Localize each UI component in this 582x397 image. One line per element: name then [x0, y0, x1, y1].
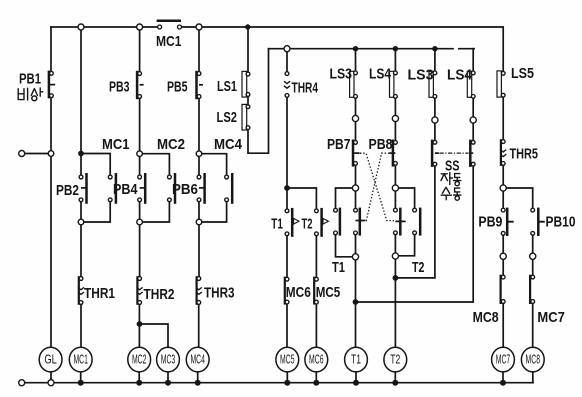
timer contact T2 (NO delayed)	[315, 208, 329, 237]
wire node to THR3	[198, 225, 200, 277]
wire LS3b to node	[434, 98, 436, 117]
wire inner contact from node	[355, 191, 357, 208]
node open on bottom rail at GL column	[48, 380, 54, 386]
thermal relay THR3	[196, 276, 202, 305]
svg-text:MC2: MC2	[157, 136, 185, 153]
node open rejoin PB6/MC4	[196, 219, 202, 225]
svg-text:LS3: LS3	[330, 66, 353, 83]
lamp GL	[39, 347, 62, 372]
contact T2 (NO) below PB8	[413, 208, 421, 236]
node open split PB4/MC2	[137, 151, 143, 157]
svg-text:THR3: THR3	[204, 285, 235, 302]
svg-text:PB1: PB1	[19, 71, 41, 88]
wire column PB3 from top rail	[139, 27, 141, 72]
coil MC3	[157, 347, 180, 372]
wire LS3 drop from second rail	[355, 49, 357, 71]
node junction dot bottom rail MC4	[195, 380, 201, 386]
node open rejoin PB2/MC1	[78, 219, 84, 225]
wire branch node to PB10	[503, 188, 533, 208]
svg-text:PB7: PB7	[327, 136, 351, 153]
limit switch LS4	[390, 71, 398, 98]
node open below THR5	[500, 185, 506, 191]
svg-text:MC3: MC3	[161, 352, 176, 366]
wire GL lamp to bottom rail	[50, 372, 52, 380]
wire T1 coil to bottom rail	[355, 372, 357, 383]
wire branch PB2 to MC1 aux	[81, 154, 110, 176]
node junction dot bottom rail MC3	[165, 380, 171, 386]
svg-text:PB10: PB10	[546, 214, 576, 231]
node open on second rail at THR4	[284, 46, 290, 52]
svg-text:THR4: THR4	[292, 80, 319, 97]
wire top rail right segment	[182, 27, 504, 71]
wire LS4b to node	[472, 98, 474, 117]
wire column PB5 from top rail	[198, 27, 200, 72]
wire rejoin node down to T2 coil	[394, 259, 396, 347]
label hangul BI-SANG (emergency) under PB1	[18, 88, 27, 100]
wire branch junction to T2 timer contact	[287, 188, 316, 208]
pushbutton PB4 (NO)	[138, 173, 145, 204]
wire T2 contact bottom to rejoin	[398, 235, 414, 256]
wire LS4b drop from second rail corner	[472, 49, 475, 72]
svg-text:T1: T1	[332, 259, 345, 276]
node open below LS3	[352, 115, 358, 121]
coil MC4	[186, 347, 209, 372]
wire MC1 aux below to node	[84, 202, 110, 222]
node open below PB9	[500, 253, 506, 259]
wire inner contact from node	[394, 191, 396, 208]
svg-text:MC8: MC8	[473, 309, 499, 326]
contact MC5 (NC interlock)	[314, 277, 318, 305]
thermal relay THR1	[78, 276, 84, 305]
wire second rail right short segment	[459, 48, 474, 50]
svg-text:MC8: MC8	[526, 352, 541, 366]
wire T1 timer contact to MC6 contact	[286, 236, 288, 277]
svg-text:MC1: MC1	[156, 33, 182, 50]
contact MC1 on top rail (NO)	[157, 21, 182, 29]
wire branch to T1 contact	[336, 188, 356, 208]
wire LS3b drop from second rail	[434, 49, 436, 72]
node junction dot second rail LS4	[393, 46, 398, 51]
selector switch SS left contact	[432, 140, 439, 167]
svg-text:LS4: LS4	[447, 66, 473, 83]
wire MC8 coil to bottom rail	[532, 372, 534, 383]
wire PB4 below to node	[139, 202, 141, 220]
svg-text:T2: T2	[412, 259, 425, 276]
node open on top rail at PB2 column	[78, 24, 84, 30]
svg-text:PB5: PB5	[167, 79, 188, 96]
limit switch LS2	[242, 104, 250, 130]
dotted mechanical link PB8 to left contact	[362, 153, 390, 220]
svg-text:PB4: PB4	[113, 181, 138, 198]
svg-text:PB6: PB6	[172, 181, 198, 198]
wire node to PB8	[394, 122, 396, 141]
limit switch LS4 second	[467, 71, 475, 98]
wire PB8 to lower node	[394, 166, 396, 185]
pushbutton PB3 (NC)	[137, 71, 144, 99]
node open on top rail at PB3 column	[137, 24, 143, 30]
node junction dot T2 column y278	[393, 275, 399, 281]
wire LS5 to THR5	[502, 97, 504, 139]
svg-text:THR5: THR5	[510, 146, 539, 163]
svg-text:MC1: MC1	[73, 352, 88, 366]
limit switch LS3 second	[429, 71, 437, 98]
wire PB10 to mid node	[532, 235, 534, 253]
node junction dot PB2 split	[78, 151, 84, 157]
svg-text:GL: GL	[44, 352, 57, 366]
wire MC6 contact to MC5 coil	[286, 304, 288, 347]
svg-text:PB3: PB3	[109, 79, 130, 96]
wire PB3 to split node	[139, 99, 141, 176]
svg-text:MC5: MC5	[280, 352, 295, 366]
wire mid node to MC7 contact	[532, 259, 534, 275]
coil MC5	[276, 347, 299, 372]
node open below LS3b	[432, 117, 438, 123]
label hangul SU-DONG (manual) under SS	[441, 187, 451, 200]
node junction dot bottom rail MC7	[500, 380, 506, 386]
wire LS3 to node	[355, 98, 357, 115]
pushbutton PB9 (NO)	[501, 208, 513, 236]
node junction dot second rail LS3b	[432, 46, 437, 51]
contact MC6 (NC interlock)	[285, 277, 289, 305]
wire T1 contact bottom to rejoin	[336, 235, 353, 257]
contact MC4 aux (NO)	[225, 173, 232, 204]
node open below PB10	[530, 253, 536, 259]
wire T2 coil to bottom rail	[394, 372, 396, 383]
wire THR2 to MC2 coil	[138, 305, 140, 348]
svg-text:PB2: PB2	[56, 182, 79, 199]
svg-text:LS2: LS2	[217, 109, 238, 126]
node open below PB7	[352, 185, 358, 191]
dash-dot link between SS contacts	[440, 152, 469, 154]
contact MC7 (NC interlock)	[530, 275, 535, 304]
wire inner contact bottom to rejoin node	[355, 235, 357, 254]
wire MC7 contact to MC8 coil	[532, 304, 534, 348]
label hangul JA-DONG (auto) under SS	[441, 172, 452, 184]
node terminal circle bottom left	[19, 380, 25, 386]
wire branch to MC2 aux	[140, 154, 170, 175]
svg-text:LS1: LS1	[217, 78, 237, 95]
node open rejoin T2 pair	[392, 253, 398, 259]
svg-text:LS5: LS5	[511, 65, 534, 82]
wire MC5 coil to bottom rail	[286, 372, 288, 383]
contact linked (NO) inner below PB7	[354, 208, 366, 236]
wire rejoin node down to T1 coil	[355, 260, 357, 347]
coil T2	[384, 347, 407, 372]
limit switch LS3	[350, 71, 358, 98]
pushbutton PB1 (NC, emergency)	[49, 71, 55, 99]
wire LS4 drop from second rail	[394, 49, 396, 71]
node open on top rail at PB5 column	[196, 24, 202, 30]
contact MC2 aux (NO)	[168, 173, 176, 204]
pushbutton PB8 (NC, linked)	[389, 140, 397, 167]
svg-text:T1: T1	[271, 216, 283, 233]
wire THR5 to node	[502, 165, 504, 185]
node open below PB8	[392, 185, 398, 191]
svg-text:LS3: LS3	[408, 66, 434, 83]
contact T1 (NO) below PB7	[334, 208, 340, 236]
node open on left rail at stub	[48, 151, 54, 157]
node open below LS4b	[470, 117, 476, 123]
svg-text:T2: T2	[390, 352, 400, 366]
svg-text:SS: SS	[445, 158, 460, 175]
svg-text:THR2: THR2	[144, 286, 175, 303]
thermal relay THR4	[284, 72, 290, 98]
wire LS1 to LS2	[247, 97, 249, 105]
svg-text:MC5: MC5	[316, 284, 341, 301]
svg-text:MC4: MC4	[214, 136, 243, 153]
wire node to PB7	[355, 122, 357, 141]
wire MC1 coil to bottom rail	[80, 372, 82, 383]
wire MC4 aux below to node	[202, 202, 227, 222]
wire second rail left riser from LS2	[248, 49, 269, 154]
wire THR3 to MC4 coil	[198, 305, 200, 348]
node junction dot top rail at LS1	[245, 24, 250, 29]
svg-text:MC6: MC6	[286, 284, 311, 301]
node junction dot second rail LS3	[353, 46, 358, 51]
wire node to THR2	[139, 225, 141, 277]
timer contact T1 (NO delayed)	[285, 208, 299, 237]
svg-text:MC2: MC2	[132, 352, 147, 366]
wire branch to T2 contact	[395, 188, 414, 208]
wire PB2 below to node	[80, 202, 82, 220]
node junction dot THR2 to MC3 branch	[137, 321, 143, 327]
wire inner contact bottom to rejoin node	[394, 235, 396, 253]
svg-text:PB9: PB9	[478, 214, 502, 231]
node open split PB6/MC4	[196, 151, 202, 157]
svg-text:THR1: THR1	[84, 285, 115, 302]
dotted mechanical link PB7 to right contact	[360, 153, 394, 220]
wire MC4 coil to bottom rail	[197, 372, 199, 383]
contact MC1 aux (NO)	[108, 173, 116, 204]
svg-text:MC4: MC4	[190, 352, 205, 366]
wire LS4 to node	[394, 98, 396, 115]
wire MC3 coil to bottom rail	[167, 372, 169, 383]
limit switch LS1 (NC with roller box)	[242, 71, 250, 97]
node junction dot bottom rail MC1	[78, 380, 84, 386]
coil MC7	[492, 347, 515, 372]
wire left terminal stub top	[25, 153, 49, 155]
wire PB6 below to node	[198, 202, 200, 220]
wire second rail main	[269, 48, 454, 50]
wire PB7 to lower node	[355, 166, 357, 185]
wire cross link at y302 to SS right riser	[356, 166, 474, 302]
pushbutton PB2 (NO)	[79, 173, 86, 204]
node junction dot T1 column y302	[353, 299, 359, 305]
pushbutton PB10 (NO)	[531, 208, 545, 236]
node junction dot bottom rail MC5	[284, 380, 290, 386]
contact MC8 (NC interlock)	[501, 275, 506, 304]
svg-text:PB8: PB8	[369, 136, 393, 153]
node junction dot bottom rail MC2	[136, 380, 142, 386]
wire LS1 column from top rail	[247, 27, 249, 72]
wire MC2 coil to bottom rail	[138, 372, 140, 383]
wire T2 timer contact to MC5 contact	[315, 236, 317, 277]
thermal relay THR5	[500, 139, 506, 166]
node junction dot bottom rail T1	[353, 380, 359, 386]
wire THR4 column from second rail	[286, 49, 288, 72]
node junction dot bottom rail T2	[392, 380, 398, 386]
coil T1	[345, 347, 368, 372]
svg-text:MC6: MC6	[309, 352, 324, 366]
wire left rail upper	[50, 27, 52, 71]
contact linked (NO) inner below PB8	[394, 208, 406, 236]
wire node to PB9	[502, 191, 504, 208]
pushbutton PB6 (NO)	[197, 173, 205, 204]
wire branch to MC3 coil	[140, 324, 169, 347]
svg-text:T1: T1	[351, 352, 361, 366]
selector switch SS right contact	[469, 140, 475, 167]
wire cross link at y278 to SS left riser	[395, 166, 435, 278]
wire MC7 coil to bottom rail	[502, 372, 504, 383]
pushbutton PB5 (NC)	[197, 71, 204, 99]
wire node to THR1	[80, 225, 82, 277]
wire node to SS left contact	[434, 123, 436, 140]
thermal relay THR2	[137, 276, 143, 305]
coil MC2	[128, 347, 151, 372]
wire top rail left segment	[51, 26, 158, 28]
svg-text:T2: T2	[302, 216, 313, 233]
wire THR4 down to T-contacts junction	[286, 97, 288, 208]
node terminal circle top left	[19, 151, 25, 157]
node junction dot THR4 branch	[284, 185, 290, 191]
wire MC6 coil to bottom rail	[315, 372, 317, 383]
wire branch to MC4 aux	[199, 154, 227, 175]
wire node to SS right contact	[472, 123, 474, 140]
node open below LS4	[392, 115, 398, 121]
wire left rail lower	[50, 98, 52, 348]
limit switch LS5	[497, 71, 505, 97]
wire THR1 to MC1 coil	[80, 305, 82, 348]
svg-text:MC7: MC7	[496, 352, 511, 366]
wire column PB2 from top rail	[80, 27, 82, 175]
node open rejoin PB4/MC2	[137, 219, 143, 225]
svg-text:LS4: LS4	[369, 66, 392, 83]
wire MC8 contact to MC7 coil	[502, 304, 504, 348]
wire MC5 contact to MC6 coil	[315, 304, 317, 347]
coil MC1	[69, 347, 92, 372]
wire mid node to MC8 contact	[502, 259, 504, 275]
svg-text:MC1: MC1	[102, 136, 130, 153]
wire bottom rail	[25, 382, 533, 384]
node open rejoin T1 pair	[352, 254, 358, 260]
coil MC8	[521, 347, 544, 372]
wire MC2 aux below to node	[142, 202, 169, 222]
wire PB9 to mid node	[502, 235, 504, 253]
pushbutton PB7 (NC, linked)	[353, 140, 360, 167]
node junction dot bottom rail MC6	[313, 380, 319, 386]
wire PB5 to split node	[198, 99, 200, 176]
svg-text:MC7: MC7	[537, 309, 565, 326]
coil MC6	[305, 347, 328, 372]
